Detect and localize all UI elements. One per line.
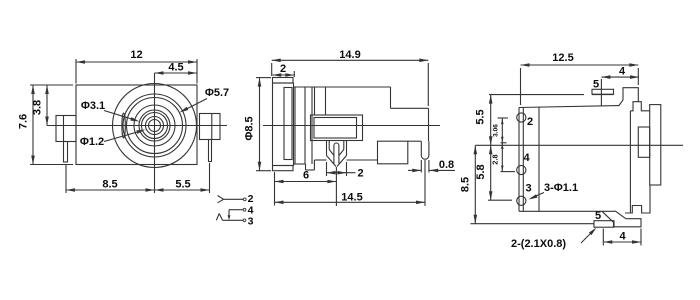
side view: snap claw right wing xyxy=(346,141,348,156)
dimension 4 bottom xyxy=(603,241,641,243)
svg-text:8.5: 8.5 xyxy=(102,179,117,191)
svg-text:7.6: 7.6 xyxy=(18,114,30,129)
svg-text:14.9: 14.9 xyxy=(339,49,360,61)
svg-text:5.8: 5.8 xyxy=(475,164,487,179)
svg-text:Φ1.2: Φ1.2 xyxy=(80,136,104,148)
svg-text:Φ8.5: Φ8.5 xyxy=(243,116,255,140)
bottom view: inner verticals xyxy=(522,107,524,211)
dimension 6 xyxy=(275,181,337,183)
side view: rear pin with round bottom xyxy=(421,141,429,159)
bottom view: rear plate xyxy=(650,105,661,185)
dimension 2 (flange width) extension line xyxy=(293,71,295,77)
dimension 14.5 extension line xyxy=(424,160,426,206)
svg-text:4: 4 xyxy=(619,231,626,243)
dimension 12 extension lines xyxy=(75,59,77,84)
svg-text:3: 3 xyxy=(248,216,254,228)
schematic: pin 4 contact xyxy=(243,208,246,211)
side view: front flange outer xyxy=(273,83,294,166)
side view: horizontal centerline xyxy=(263,125,440,127)
front view: left mounting tab xyxy=(56,116,76,142)
front view: keyway slot ellipse xyxy=(122,113,125,138)
svg-text:6: 6 xyxy=(303,170,309,182)
front view: concentric circles of jack barrel xyxy=(113,84,197,168)
dimension 4 bottom extension lines xyxy=(602,229,604,246)
side view: body outline top xyxy=(294,86,391,88)
svg-text:3.8: 3.8 xyxy=(32,100,44,115)
svg-text:12.5: 12.5 xyxy=(552,52,573,64)
bottom view: bottom profile with tab bump xyxy=(625,185,650,213)
side view: flange top bump xyxy=(273,78,294,84)
schematic: pin 3 contact with spring xyxy=(243,219,246,222)
svg-text:3.06: 3.06 xyxy=(493,124,500,137)
svg-text:8.5: 8.5 xyxy=(460,177,472,192)
dimension 2 (flange width) xyxy=(272,74,294,76)
bottom view: bottom shield tab diagonals xyxy=(602,211,614,222)
dimension 4 top extension line xyxy=(600,79,602,106)
front view: right mounting tab xyxy=(200,114,221,140)
dimension 2.8 (rotated small) xyxy=(501,142,507,144)
side view: flange bottom bump xyxy=(273,166,294,171)
dimension 14.9 extension lines xyxy=(271,63,273,76)
bottom view: bottom solder pad (5) xyxy=(594,221,614,228)
dimension 7.6 xyxy=(32,85,34,165)
svg-text:5: 5 xyxy=(593,79,599,91)
bottom view: top wing bump xyxy=(630,102,649,111)
dimension 0.8 extension lines xyxy=(420,160,422,173)
svg-text:4: 4 xyxy=(524,152,531,164)
svg-text:5.5: 5.5 xyxy=(175,179,190,191)
side view: flange inner strip xyxy=(284,88,292,160)
svg-text:5.5: 5.5 xyxy=(475,109,487,124)
dimension 8.5 / 5.5 extension lines xyxy=(65,164,67,193)
dimension 8.5 (rotated) xyxy=(474,145,476,223)
dimension 6 extension line xyxy=(274,172,276,206)
dimension 5.8 (rotated) xyxy=(490,145,492,200)
dimension 8.5 extension line (bottom pad) xyxy=(471,223,595,225)
front view: horizontal centerline xyxy=(47,125,227,127)
dimension dia 8.5 extension lines xyxy=(256,77,271,79)
bottom view: main body xyxy=(519,106,619,108)
claw center extension line xyxy=(335,167,337,206)
front view: right pin xyxy=(209,140,212,162)
svg-text:2.8: 2.8 xyxy=(491,154,500,164)
side view: snap claw stem xyxy=(334,143,339,164)
svg-text:2-(2.1X0.8): 2-(2.1X0.8) xyxy=(511,238,566,250)
dimension 8.5 (front) xyxy=(66,189,155,191)
svg-text:2: 2 xyxy=(248,193,254,205)
bottom view: top shield tab xyxy=(619,88,639,106)
dimension 7.6 extension lines xyxy=(30,84,73,86)
dimension 3.8 xyxy=(46,85,48,126)
bottom view: rear inner block xyxy=(638,127,649,157)
side view: body bottom profile xyxy=(294,163,306,165)
svg-text:3: 3 xyxy=(526,183,532,195)
schematic: pin 2 contact xyxy=(218,196,224,200)
svg-text:2: 2 xyxy=(280,63,286,75)
dimension 5.8 extension line (hole 3) xyxy=(488,199,512,201)
dimension 14.5 xyxy=(275,201,426,203)
dimension 4 top xyxy=(601,76,639,78)
svg-text:14.5: 14.5 xyxy=(341,191,362,203)
dimension 14.9 xyxy=(272,59,429,61)
svg-text:2: 2 xyxy=(527,116,533,128)
dimension 3.06 (rotated small) xyxy=(498,117,509,119)
side view: rear block xyxy=(378,141,408,164)
bottom view: bottom tab foot xyxy=(614,219,642,227)
dimension 2 (claw) extension lines xyxy=(326,162,328,176)
side view: middle box outer xyxy=(311,115,363,141)
dimension 12.5 extension lines xyxy=(520,68,522,105)
svg-text:Φ5.7: Φ5.7 xyxy=(205,87,229,99)
svg-text:0.8: 0.8 xyxy=(439,159,454,171)
dimension 2 (claw) xyxy=(327,172,347,174)
svg-text:4: 4 xyxy=(619,66,626,78)
side view: body internal verticals xyxy=(294,87,296,164)
svg-text:4.5: 4.5 xyxy=(168,62,183,74)
svg-text:2: 2 xyxy=(357,168,363,180)
side view: snap claw left wing xyxy=(326,141,328,156)
front view: vertical centerline xyxy=(154,73,156,193)
dimension 0.8 (outside arrows) xyxy=(408,169,421,171)
front view: jack body rectangle xyxy=(76,85,197,165)
dimension 5.5 (rotated) xyxy=(490,95,492,146)
svg-text:Φ3.1: Φ3.1 xyxy=(81,100,105,112)
svg-text:3-Φ1.1: 3-Φ1.1 xyxy=(544,182,578,194)
bottom view: horizontal centerline xyxy=(475,144,683,146)
bottom view: pin holes circles xyxy=(517,113,526,122)
dimension dia 8.5 (rotated) xyxy=(259,78,261,171)
side view: middle box inner xyxy=(314,118,357,139)
dimension 12.5 xyxy=(521,64,639,66)
svg-text:12: 12 xyxy=(130,49,142,61)
dimension 5.5 (front) xyxy=(155,189,210,191)
bottom view: top solder pad (5) xyxy=(592,89,614,94)
dimension 12 xyxy=(76,61,197,63)
dimension 4.5 xyxy=(155,72,198,74)
front view: left pin xyxy=(64,142,68,163)
svg-text:5: 5 xyxy=(595,210,601,222)
